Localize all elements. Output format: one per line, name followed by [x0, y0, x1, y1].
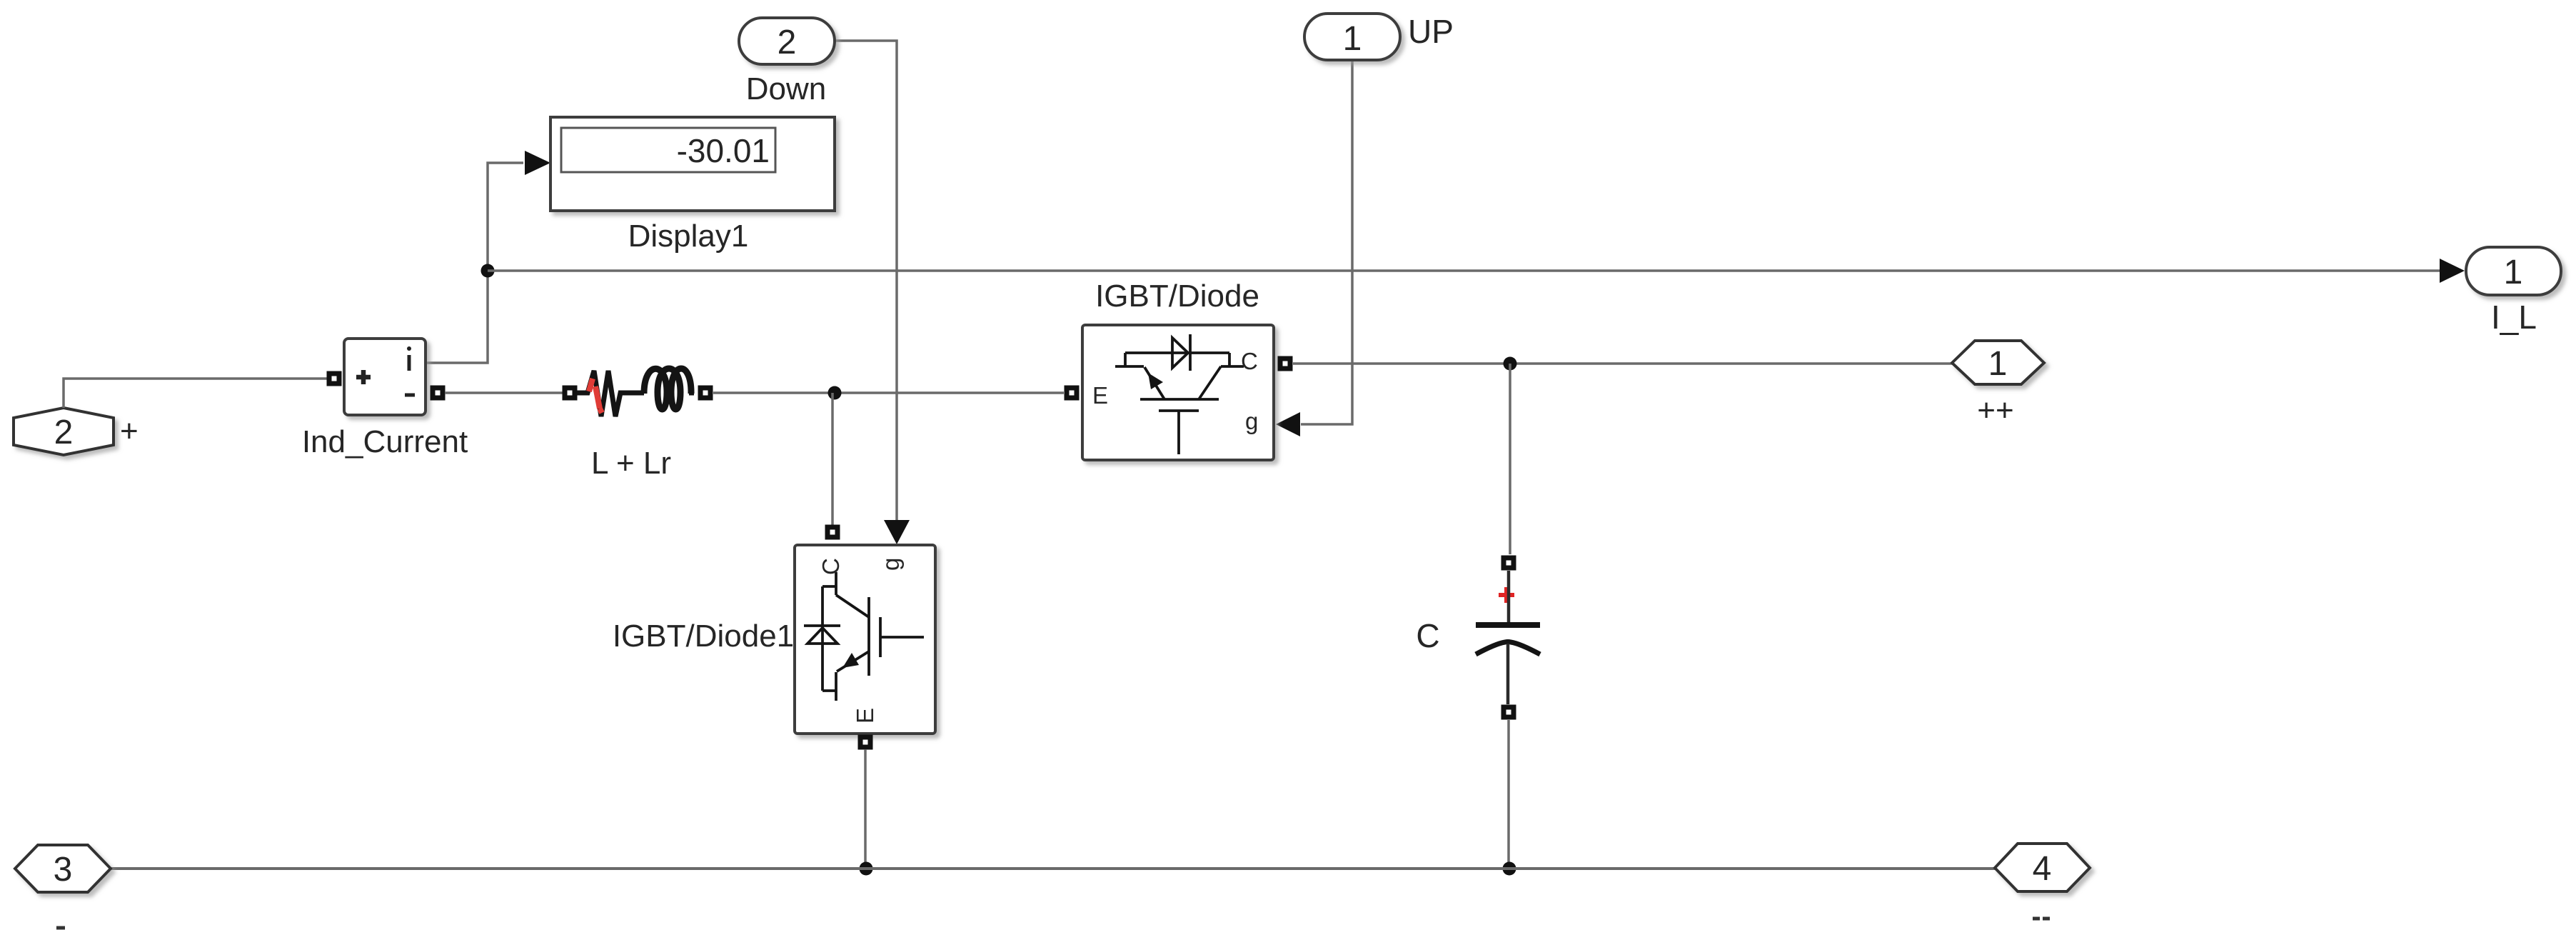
- outport 1 oval I_L: [2466, 247, 2561, 295]
- junction node E: [860, 862, 873, 876]
- port square IGBT/Diode1 E: [858, 735, 873, 750]
- port square IGBT/Diode E: [1065, 386, 1080, 401]
- svg-text:I_L: I_L: [2491, 299, 2537, 336]
- wire junction C to capacitor: [1509, 364, 1511, 554]
- diode D triangle: [807, 628, 837, 644]
- junction node A: [481, 264, 495, 278]
- svg-text:C: C: [817, 558, 844, 575]
- wire antiparallel diode top rail: [821, 586, 824, 691]
- inductor L: [644, 369, 694, 409]
- svg-text:++: ++: [1977, 393, 2013, 428]
- port square RL left: [563, 386, 578, 401]
- diode D triangle: [1172, 338, 1188, 368]
- transistor body bar: [867, 597, 870, 676]
- wire emitter stub and bar: [1115, 353, 1144, 366]
- wire junction B to IGBT/Diode1 C: [831, 393, 834, 525]
- svg-text:1: 1: [2504, 254, 2523, 291]
- svg-text:IGBT/Diode: IGBT/Diode: [1095, 279, 1259, 314]
- svg-text:E: E: [852, 708, 878, 724]
- port square IGBT/Diode1 C: [825, 525, 840, 540]
- wire IGBT/Diode1 E to bus: [864, 749, 867, 869]
- svg-text:C: C: [1241, 348, 1258, 374]
- wire UP net: [1301, 61, 1352, 424]
- red polarity marker: [1499, 587, 1514, 603]
- wire port2 to Ind_Current: [64, 379, 327, 408]
- port square IGBT/Diode C: [1278, 356, 1293, 371]
- wire capacitor to bus: [1507, 720, 1510, 869]
- wire I_L: [488, 269, 2440, 272]
- transistor body bar: [1140, 398, 1219, 401]
- svg-text:UP: UP: [1408, 13, 1454, 50]
- svg-text:1: 1: [1343, 20, 1362, 58]
- emitter arrow: [842, 653, 859, 668]
- wire Ind_Current minus to RL: [445, 391, 563, 394]
- svg-text:Down: Down: [746, 71, 827, 106]
- svg-text:g: g: [1245, 408, 1258, 434]
- svg-text:Display1: Display1: [628, 219, 749, 254]
- svg-text:E: E: [1092, 382, 1108, 409]
- wire emitter stub and bar: [822, 672, 836, 701]
- port square capacitor bottom: [1501, 705, 1516, 720]
- svg-text:2: 2: [54, 414, 74, 451]
- IGBT/Diode1 icon rotated: [804, 558, 924, 724]
- port square Ind_Current input: [327, 371, 342, 386]
- block IGBT/Diode1: [795, 545, 935, 734]
- Ind_Current i output mark: [408, 355, 411, 371]
- diode D cathode bar: [1189, 334, 1192, 371]
- resistor R: [577, 371, 644, 416]
- svg-text:1: 1: [1988, 345, 2008, 383]
- wire Ind_Current i to junction A and Display1: [426, 163, 523, 363]
- emitter arrow: [1148, 373, 1163, 389]
- inport 1 oval UP: [1304, 14, 1400, 60]
- bus wire: [111, 867, 1995, 870]
- block IGBT/Diode: [1082, 325, 1274, 460]
- junction node B: [828, 386, 842, 400]
- label minus: [56, 926, 65, 930]
- port square Ind_Current minus: [431, 386, 446, 401]
- svg-text:Ind_Current: Ind_Current: [302, 424, 468, 459]
- connection port 1 hexagon ++: [1952, 341, 2044, 384]
- arrowhead into IGBT/Diode1 gate: [884, 520, 910, 544]
- connection port 2 hexagon: [14, 408, 114, 455]
- transistor collector slant: [836, 595, 869, 617]
- port square capacitor top: [1501, 556, 1516, 571]
- label minus-minus: [2033, 917, 2050, 921]
- wire antiparallel diode top rail: [1125, 351, 1229, 354]
- junction node D: [1503, 862, 1516, 876]
- diode D cathode bar: [804, 624, 840, 627]
- connection port 3 hexagon: [15, 845, 111, 892]
- gate stem: [1177, 411, 1180, 454]
- inport 2 oval: [739, 18, 835, 64]
- wire C net to ++: [1293, 362, 1953, 365]
- arrowhead into IGBT/Diode gate: [1276, 412, 1300, 436]
- port square RL right: [698, 386, 713, 401]
- gate bar: [879, 617, 882, 657]
- display block Display1: [550, 117, 835, 211]
- arrowhead into outport I_L: [2440, 259, 2465, 283]
- wire Down net: [835, 41, 897, 522]
- svg-text:-30.01: -30.01: [677, 132, 770, 169]
- gate stem: [880, 636, 924, 639]
- svg-text:L + Lr: L + Lr: [591, 446, 671, 481]
- arrowhead into Display1: [525, 151, 550, 175]
- svg-text:2: 2: [778, 24, 797, 61]
- capacitor C: [1476, 571, 1540, 704]
- svg-text:3: 3: [54, 851, 73, 889]
- svg-text:4: 4: [2033, 850, 2052, 888]
- junction node C: [1504, 357, 1517, 371]
- svg-text:C: C: [1416, 617, 1439, 654]
- transistor emitter slant: [1144, 367, 1164, 399]
- Ind_Current minus mark: [405, 394, 415, 397]
- wire collector stub and run: [822, 572, 836, 595]
- connection port 4 hexagon: [1995, 844, 2090, 891]
- wire collector stub and run: [1221, 353, 1244, 366]
- resistor red mark: [589, 379, 602, 413]
- gate bar: [1159, 409, 1199, 412]
- svg-text:IGBT/Diode1: IGBT/Diode1: [613, 619, 794, 654]
- svg-text:+: +: [120, 414, 139, 449]
- wire RL to IGBT/Diode E: [713, 391, 1064, 394]
- transistor collector slant: [1199, 366, 1221, 399]
- block Ind_Current: [344, 339, 426, 415]
- transistor emitter slant: [837, 651, 869, 671]
- IGBT/Diode icon: [1092, 334, 1258, 454]
- Ind_Current plus sign: [356, 370, 371, 384]
- svg-text:g: g: [877, 558, 904, 571]
